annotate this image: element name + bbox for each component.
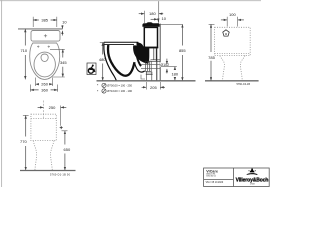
flush channel black finger (137, 56, 141, 67)
cistern lid side view (142, 22, 159, 27)
svg-text:180: 180 (149, 11, 156, 16)
bowl seat line (104, 44, 134, 46)
dim 205 extension lines (146, 82, 160, 90)
pedestal dotted right (51, 141, 54, 171)
dim 785 top extension (209, 23, 215, 25)
supply valve dot (225, 33, 227, 35)
dim 260 line (36, 83, 53, 85)
V&B crest wings (247, 173, 258, 175)
dim 250 arrows (38, 106, 44, 108)
title block outer box (204, 168, 270, 187)
V&B crest handles (249, 170, 250, 171)
dim 260 extension lines (36, 78, 53, 87)
dim 180 left extension (144, 11, 146, 23)
page frame top line (0, 0, 261, 2)
svg-text:205: 205 (150, 85, 157, 90)
dim 770 top extension (23, 114, 29, 116)
dim 385 line (33, 19, 57, 21)
V&B crest vase (250, 169, 255, 173)
bowl inner rim ellipse (34, 52, 55, 77)
dim 770 line (25, 115, 27, 170)
dim 650 top extension (62, 130, 68, 132)
svg-text:5760-D1-1B 00: 5760-D1-1B 00 (50, 173, 71, 176)
wheelchair icon box (87, 63, 96, 75)
svg-text:5760-C0-1B: 5760-C0-1B (237, 83, 251, 86)
bowl section black area (133, 45, 149, 63)
svg-text:5760 X0 01: 5760 X0 01 (206, 176, 216, 178)
svg-text:345: 345 (60, 60, 67, 65)
wheelchair icon body (90, 66, 95, 72)
tank dotted outline front (31, 114, 56, 140)
supply valve pentagon (223, 30, 229, 36)
wall line side view (159, 24, 161, 81)
bowl rim left tip (103, 42, 105, 45)
dim 10 arrow (151, 18, 158, 20)
dim 180 left arrow (139, 13, 145, 15)
floor line front view (20, 170, 76, 172)
dim Ø102 arrows (166, 59, 168, 65)
pedestal dotted rear left (220, 56, 225, 81)
dim 205 arrows (142, 86, 147, 88)
svg-text:100: 100 (229, 12, 236, 17)
vertical outlet elbow (146, 71, 153, 80)
svg-text:250: 250 (49, 105, 56, 110)
supply connection plus mark (60, 126, 63, 129)
bowl front outline (104, 45, 116, 81)
svg-text:710: 710 (20, 48, 27, 53)
dim 250 right extension to supply point (60, 106, 62, 126)
seat hole cross right (48, 46, 50, 48)
pedestal dotted rear right (240, 56, 245, 81)
svg-text:Ø71/100 = 100 - 190: Ø71/100 = 100 - 190 (107, 89, 132, 93)
wall line top view (18, 28, 63, 30)
seat hole cross left (37, 46, 39, 48)
outlet pipe to wall (141, 64, 160, 68)
centerline (43, 101, 45, 119)
floor line side view (97, 80, 196, 82)
cistern lid top view (31, 31, 60, 42)
note line 1 icon (102, 83, 106, 87)
outlet connector verticals (145, 61, 151, 71)
extension line at lid top level (159, 23, 183, 25)
svg-text:10: 10 (161, 16, 166, 21)
tank dotted outline rear (215, 27, 251, 55)
dim 480 top extension (100, 42, 104, 44)
dim 855 line (181, 24, 183, 80)
svg-text:Villeroy&Boch: Villeroy&Boch (236, 177, 269, 183)
svg-text:1748: 1748 (250, 184, 256, 186)
svg-text:180: 180 (171, 72, 178, 77)
dim 385 extension lines (33, 17, 57, 27)
floor line rear view (205, 80, 259, 82)
lid cross mark (44, 34, 47, 37)
hinge area black wedge (137, 42, 143, 47)
dim 180 outlet line (174, 67, 176, 81)
dim 10 down arrow (157, 19, 159, 22)
wheelchair icon wheel (88, 68, 93, 73)
note line 2 icon (102, 89, 106, 93)
wheelchair icon head (92, 65, 94, 67)
dim 345 extension lines (50, 49, 65, 77)
dim 100 arrows (221, 19, 227, 21)
flush pipe lines under cistern (154, 49, 156, 61)
cistern body side view (144, 27, 157, 47)
dim 180 outlet extension (161, 66, 177, 68)
dim 180 right arrow (159, 13, 163, 15)
svg-text:650: 650 (64, 147, 71, 152)
wall extension line to top frame (158, 1, 160, 23)
page frame left line (1, 0, 3, 187)
dim 480 line (102, 43, 104, 81)
cistern bottom band (144, 47, 158, 49)
svg-text:385: 385 (41, 17, 48, 22)
trap second bend hook (135, 63, 145, 72)
fixing bracket horizontals (151, 60, 161, 62)
dim 100 extension lines (227, 17, 237, 27)
dim 15 arrows (61, 25, 63, 29)
title block vertical divider (232, 168, 234, 187)
bowl rim top line (104, 41, 138, 43)
dim 710 line (24, 29, 26, 80)
dim 785 line (210, 24, 212, 80)
rear pedestal line to floor (156, 49, 158, 81)
svg-text:770: 770 (20, 139, 27, 144)
svg-text:10: 10 (62, 20, 67, 25)
svg-text:260: 260 (41, 82, 48, 87)
pedestal dotted left (33, 141, 36, 171)
svg-text:Ø70/100 = 100 - 250: Ø70/100 = 100 - 250 (107, 84, 132, 88)
tank bottom second dotted line (215, 53, 251, 55)
dim 650 line (64, 131, 66, 170)
flush hole (41, 54, 48, 62)
dim 345 line (62, 49, 64, 77)
svg-text:785: 785 (208, 55, 215, 60)
svg-text:480: 480 (99, 57, 106, 62)
dim Ø102 white backing (160, 62, 170, 67)
svg-text:360: 360 (41, 87, 48, 92)
outlet connector horizontals (145, 61, 151, 71)
bowl outer outline top view (30, 43, 60, 79)
bowl inner curve and water seal U (108, 45, 134, 76)
tank lid seam dotted (31, 118, 56, 120)
svg-text:855: 855 (179, 48, 186, 53)
title block horizontal divider (204, 178, 234, 180)
pedestal rear foot bracket (141, 75, 145, 79)
dim 360 line (30, 89, 57, 91)
dim 360 extension lines (30, 85, 57, 92)
svg-text:V61 / 05 10.2020: V61 / 05 10.2020 (206, 182, 224, 184)
